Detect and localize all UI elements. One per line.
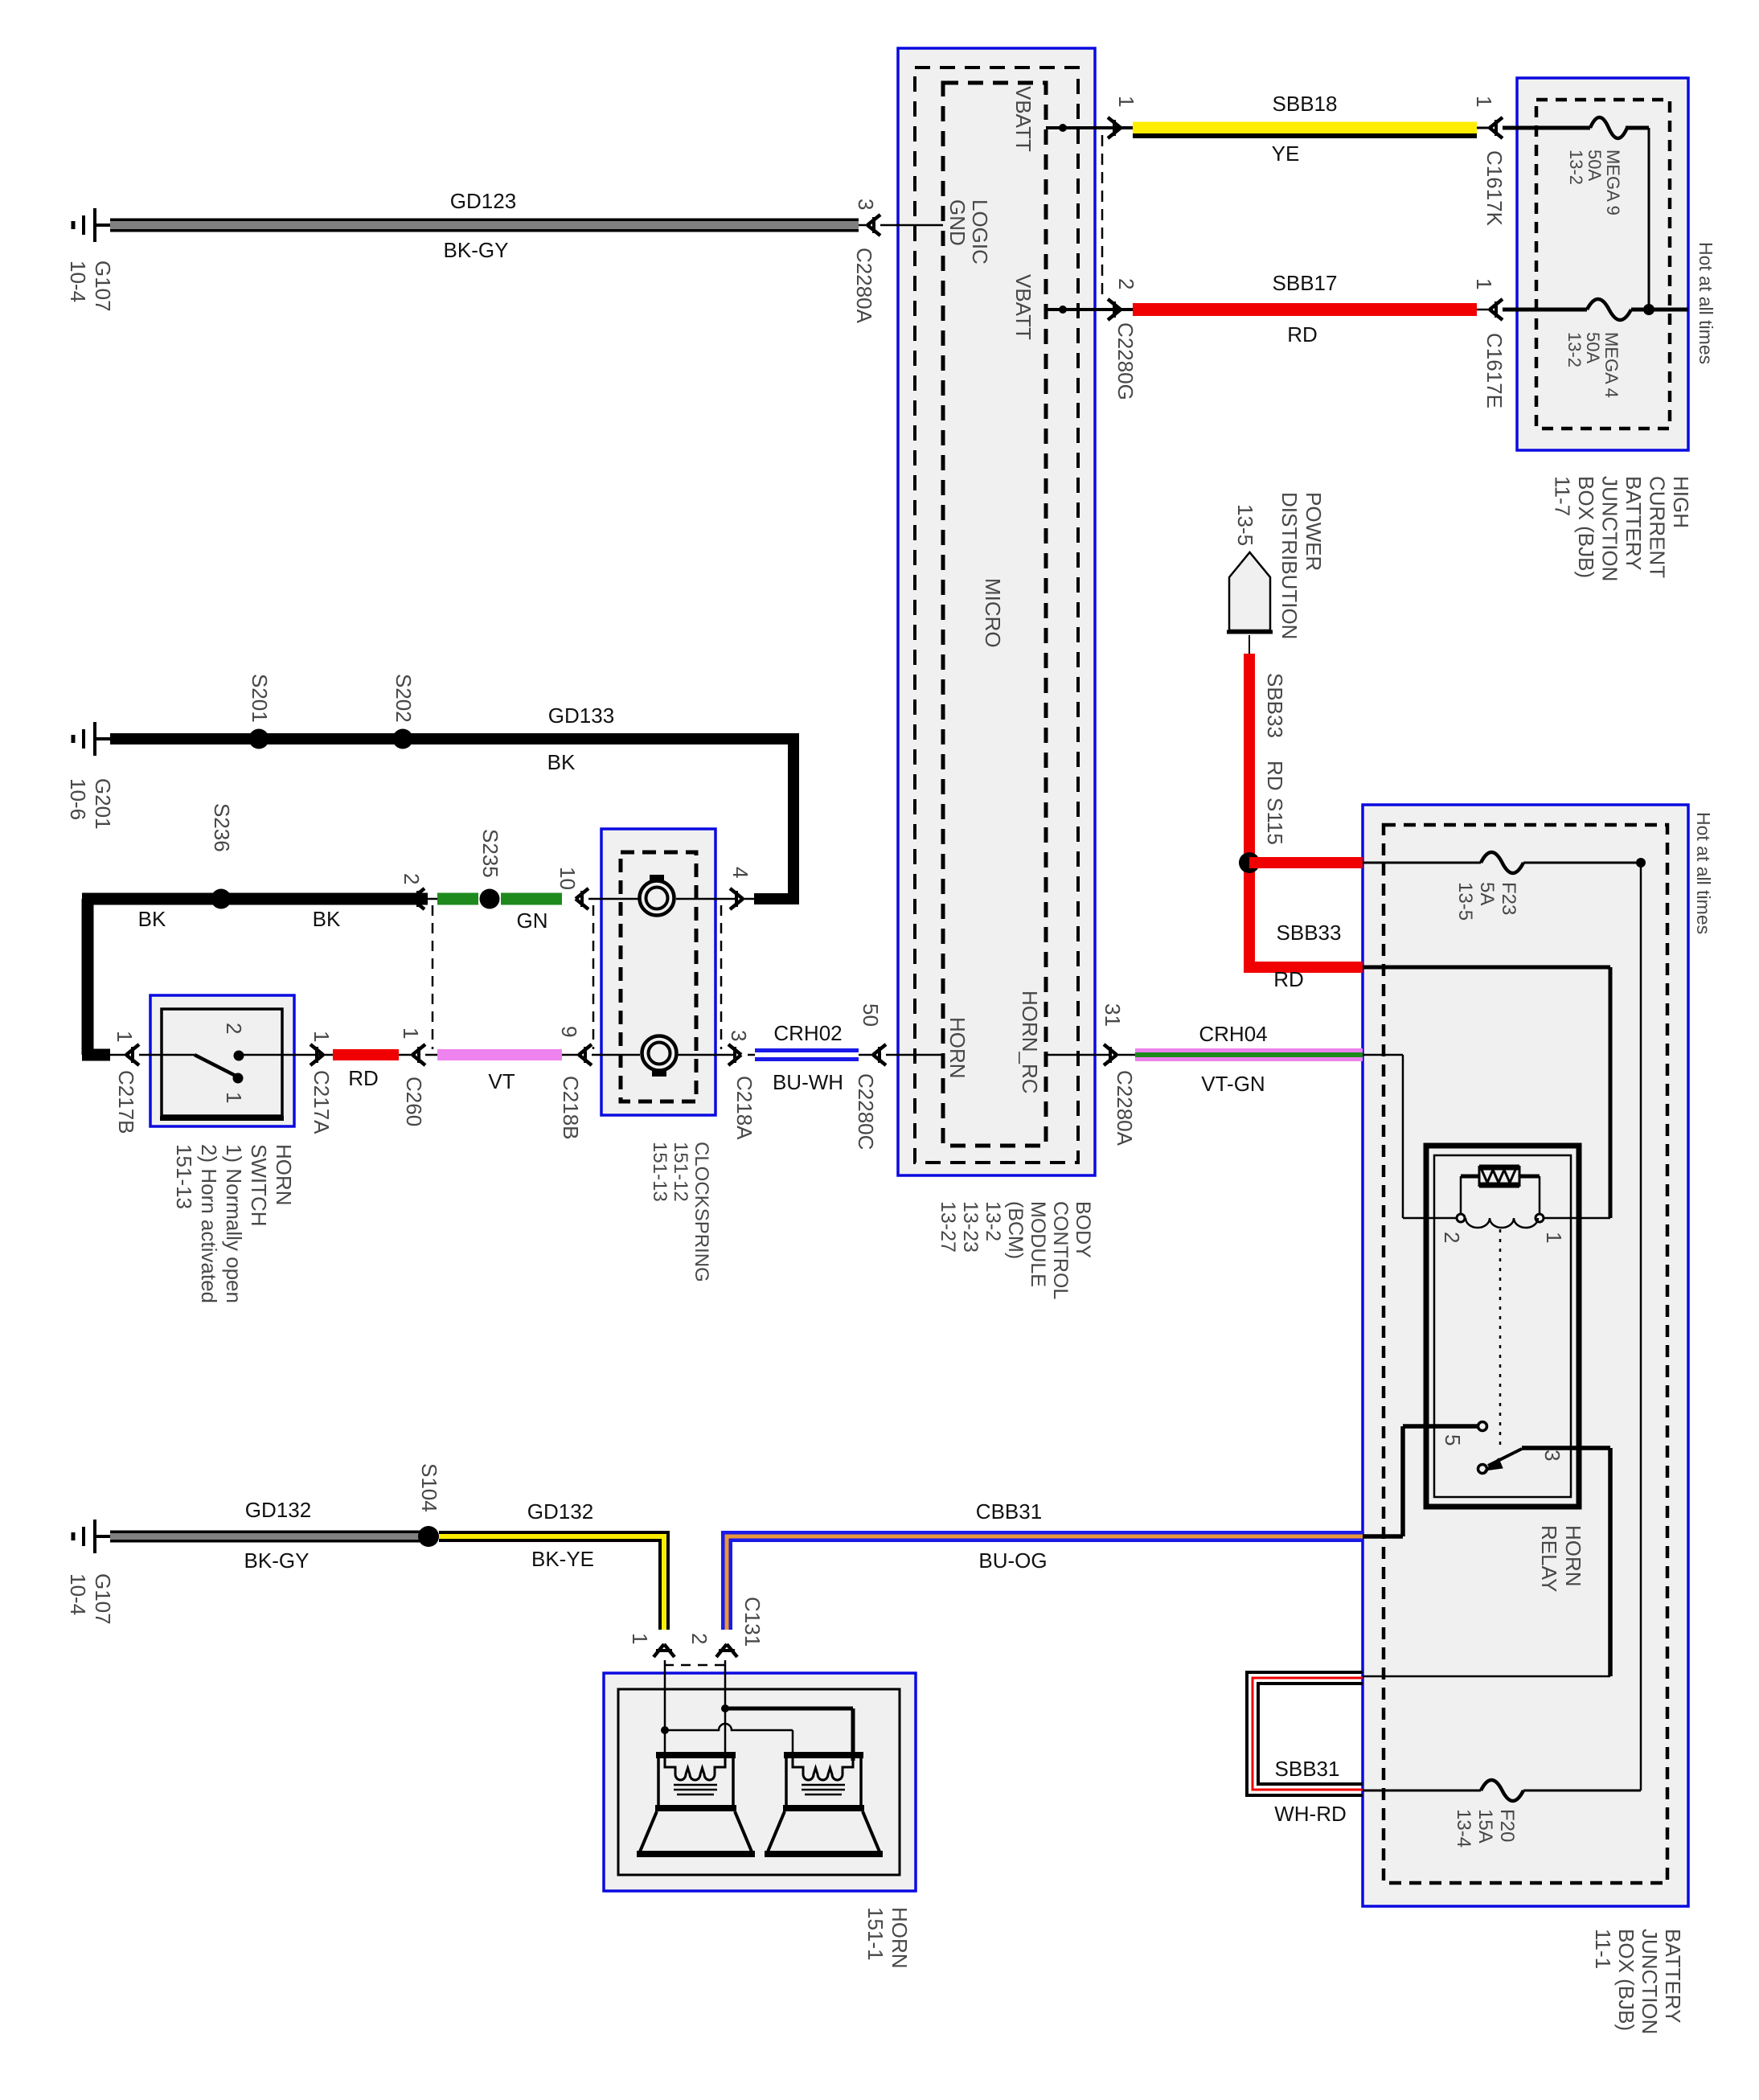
svg-text:BK-YE: BK-YE [531, 1547, 594, 1571]
svg-text:BATTERY: BATTERY [1661, 1929, 1685, 2024]
svg-text:10-4: 10-4 [66, 1573, 90, 1615]
svg-text:13-2: 13-2 [1566, 150, 1586, 185]
svg-text:BOX (BJB): BOX (BJB) [1614, 1929, 1638, 2031]
svg-text:HORN_RC: HORN_RC [1018, 991, 1042, 1094]
svg-text:2: 2 [1114, 278, 1138, 289]
svg-text:RELAY: RELAY [1537, 1525, 1561, 1592]
svg-text:1: 1 [1542, 1232, 1566, 1243]
svg-text:GD133: GD133 [548, 703, 614, 728]
svg-text:GD123: GD123 [450, 189, 516, 213]
svg-text:(BCM): (BCM) [1004, 1201, 1027, 1259]
svg-text:1: 1 [1114, 96, 1138, 107]
svg-text:50: 50 [859, 1003, 883, 1027]
svg-text:S235: S235 [478, 829, 502, 878]
svg-text:13-5: 13-5 [1454, 882, 1476, 921]
svg-text:50A: 50A [1583, 332, 1603, 363]
svg-text:1: 1 [399, 1027, 423, 1039]
svg-text:151-13: 151-13 [172, 1144, 196, 1209]
svg-text:HORN: HORN [272, 1144, 296, 1206]
svg-text:C2280G: C2280G [1113, 322, 1138, 400]
svg-text:151-12: 151-12 [670, 1142, 691, 1202]
svg-text:1: 1 [222, 1092, 246, 1103]
svg-text:SBB18: SBB18 [1273, 92, 1338, 116]
svg-text:13-4: 13-4 [1453, 1809, 1474, 1848]
svg-text:YE: YE [1272, 142, 1300, 166]
svg-text:MEGA 4: MEGA 4 [1601, 332, 1622, 398]
svg-text:3: 3 [1540, 1450, 1564, 1461]
svg-text:MEGA 9: MEGA 9 [1603, 150, 1623, 215]
svg-text:10-6: 10-6 [66, 778, 90, 820]
svg-text:S201: S201 [248, 674, 272, 723]
svg-text:G201: G201 [91, 778, 115, 830]
svg-text:3: 3 [727, 1030, 751, 1041]
svg-text:SBB31: SBB31 [1275, 1757, 1340, 1781]
svg-text:GD132: GD132 [245, 1498, 311, 1522]
svg-text:BOX (BJB): BOX (BJB) [1574, 476, 1598, 578]
svg-text:CURRENT: CURRENT [1646, 476, 1670, 578]
svg-text:GD132: GD132 [527, 1499, 593, 1524]
svg-text:11-7: 11-7 [1551, 476, 1575, 516]
svg-text:SWITCH: SWITCH [247, 1144, 271, 1227]
svg-text:MICRO: MICRO [981, 578, 1005, 648]
svg-text:11-1: 11-1 [1591, 1929, 1615, 1969]
svg-text:1: 1 [628, 1633, 652, 1644]
svg-text:2: 2 [222, 1023, 246, 1034]
svg-text:2: 2 [400, 873, 424, 884]
svg-text:JUNCTION: JUNCTION [1598, 476, 1622, 581]
svg-text:RD: RD [348, 1066, 379, 1090]
svg-text:151-13: 151-13 [649, 1142, 670, 1202]
svg-text:5A: 5A [1476, 882, 1498, 905]
svg-text:F20: F20 [1496, 1809, 1518, 1842]
svg-text:1: 1 [1472, 96, 1496, 107]
svg-text:S236: S236 [210, 803, 234, 852]
svg-text:1: 1 [1472, 278, 1496, 289]
svg-text:DISTRIBUTION: DISTRIBUTION [1277, 492, 1302, 639]
svg-text:BATTERY: BATTERY [1622, 476, 1646, 571]
svg-text:S202: S202 [392, 674, 416, 723]
svg-text:Hot at all times: Hot at all times [1693, 812, 1714, 934]
svg-text:WH-RD: WH-RD [1274, 1802, 1347, 1826]
svg-text:VBATT: VBATT [1011, 274, 1035, 340]
svg-text:JUNCTION: JUNCTION [1638, 1929, 1662, 2034]
svg-text:F23: F23 [1498, 882, 1519, 915]
svg-text:C217B: C217B [114, 1070, 138, 1134]
svg-text:CONTROL: CONTROL [1049, 1201, 1072, 1299]
svg-text:RD: RD [1287, 322, 1318, 347]
svg-text:C1617E: C1617E [1482, 333, 1507, 408]
svg-text:POWER: POWER [1302, 492, 1326, 571]
svg-text:HORN: HORN [1561, 1525, 1585, 1587]
svg-text:C218B: C218B [559, 1076, 583, 1140]
svg-text:1: 1 [113, 1031, 137, 1042]
svg-text:9: 9 [557, 1026, 581, 1037]
svg-text:VT: VT [488, 1069, 515, 1093]
svg-text:HORN: HORN [888, 1907, 912, 1969]
svg-text:BK: BK [547, 750, 576, 774]
svg-text:G107: G107 [91, 1573, 115, 1625]
svg-text:BK: BK [138, 907, 166, 931]
svg-text:CRH04: CRH04 [1199, 1022, 1267, 1046]
svg-text:BODY: BODY [1072, 1201, 1094, 1258]
svg-text:HIGH: HIGH [1669, 476, 1693, 528]
svg-text:1) Normally open: 1) Normally open [222, 1144, 246, 1303]
svg-text:Hot at all times: Hot at all times [1695, 242, 1716, 364]
svg-text:13-5: 13-5 [1233, 504, 1257, 546]
svg-text:VBATT: VBATT [1011, 86, 1035, 152]
svg-text:50A: 50A [1585, 150, 1605, 181]
svg-text:31: 31 [1101, 1003, 1125, 1027]
svg-text:MODULE: MODULE [1027, 1201, 1049, 1287]
svg-text:3: 3 [854, 199, 878, 210]
svg-text:5: 5 [1441, 1434, 1465, 1446]
svg-text:C2280A: C2280A [1113, 1070, 1137, 1146]
svg-text:151-1: 151-1 [863, 1907, 888, 1961]
svg-text:4: 4 [728, 867, 752, 878]
svg-text:G107: G107 [91, 260, 115, 312]
svg-text:CLOCKSPRING: CLOCKSPRING [691, 1142, 712, 1282]
svg-text:SBB33: SBB33 [1277, 921, 1342, 945]
svg-text:C260: C260 [402, 1077, 426, 1126]
svg-text:13-2: 13-2 [1564, 332, 1585, 367]
svg-text:C2280A: C2280A [852, 248, 876, 324]
svg-text:S104: S104 [417, 1463, 441, 1512]
svg-text:13-2: 13-2 [982, 1201, 1004, 1241]
svg-text:S115: S115 [1263, 798, 1287, 845]
svg-text:GND: GND [945, 199, 970, 246]
svg-text:HORN: HORN [945, 1017, 970, 1079]
svg-text:C2280C: C2280C [854, 1073, 878, 1150]
svg-text:15A: 15A [1474, 1809, 1496, 1844]
svg-text:LOGIC: LOGIC [968, 199, 992, 265]
svg-text:C131: C131 [740, 1597, 765, 1647]
svg-text:1: 1 [310, 1031, 334, 1042]
svg-text:10-4: 10-4 [66, 260, 90, 302]
svg-text:RD: RD [1263, 761, 1287, 791]
svg-text:BU-WH: BU-WH [773, 1070, 843, 1094]
svg-text:CRH02: CRH02 [773, 1021, 842, 1045]
svg-text:C1617K: C1617K [1482, 150, 1507, 227]
svg-text:BK-GY: BK-GY [444, 238, 509, 262]
svg-text:2: 2 [1440, 1232, 1464, 1243]
svg-text:SBB17: SBB17 [1273, 271, 1338, 295]
svg-text:BU-OG: BU-OG [978, 1548, 1047, 1573]
svg-text:BK-GY: BK-GY [244, 1548, 310, 1573]
svg-text:GN: GN [517, 908, 548, 933]
svg-text:10: 10 [556, 867, 580, 890]
svg-text:RD: RD [1273, 967, 1304, 991]
svg-text:2: 2 [687, 1633, 711, 1644]
svg-text:2) Horn activated: 2) Horn activated [197, 1144, 221, 1303]
svg-text:SBB33: SBB33 [1263, 673, 1287, 738]
svg-text:VT-GN: VT-GN [1201, 1072, 1265, 1096]
svg-text:13-23: 13-23 [959, 1201, 982, 1253]
svg-text:C218A: C218A [732, 1076, 756, 1140]
svg-text:BK: BK [313, 907, 341, 931]
svg-text:CBB31: CBB31 [976, 1499, 1042, 1524]
svg-text:13-27: 13-27 [937, 1201, 959, 1253]
svg-text:C217A: C217A [310, 1070, 334, 1134]
